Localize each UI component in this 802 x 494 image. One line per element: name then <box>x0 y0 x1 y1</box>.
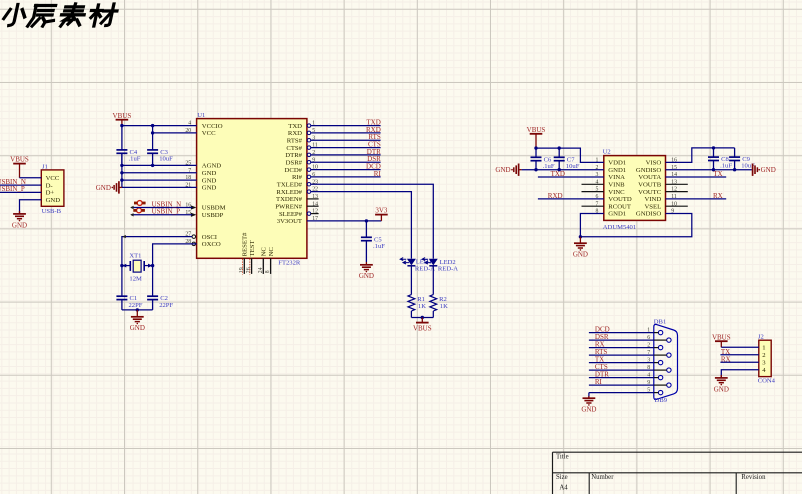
wire DSR from U1 <box>311 161 381 163</box>
U1 pin 24 NC <box>262 258 264 274</box>
wire TXLED to LED2 <box>311 184 434 258</box>
wire VBUS down to C3 and VCC <box>152 126 154 150</box>
IC U1 FT232R body <box>197 119 307 259</box>
wire USBDM <box>131 207 192 209</box>
junction GND rail pin7 <box>120 171 123 174</box>
junction VBUS C7 <box>558 146 561 149</box>
ground at crystal <box>136 310 138 317</box>
U1 pin 19 RESET# <box>243 258 245 274</box>
DB1 pin 3 <box>658 360 662 364</box>
svg-text:VIND: VIND <box>644 196 661 203</box>
svg-text:19: 19 <box>239 267 245 273</box>
svg-text:TX: TX <box>713 170 722 178</box>
wire DTR from U1 <box>311 154 381 156</box>
wire J1 VCC to VBUS <box>20 177 42 179</box>
svg-text:U2: U2 <box>603 148 611 155</box>
svg-text:RCOUT: RCOUT <box>608 203 631 210</box>
wire USBIN_N to J1 D- <box>0 184 41 186</box>
svg-text:RX: RX <box>713 192 723 200</box>
svg-text:22PF: 22PF <box>159 302 173 309</box>
svg-text:RXD: RXD <box>288 130 302 137</box>
wire LED resistors bottom <box>411 317 433 319</box>
wire crystal left leg down <box>121 266 123 297</box>
wire RI from U1 <box>311 176 381 178</box>
ground port at U1 GND rail <box>119 186 122 188</box>
svg-text:Revision: Revision <box>741 474 766 481</box>
wire OXCO to crystal <box>153 244 197 266</box>
svg-text:USB-B: USB-B <box>42 208 62 215</box>
junction C8 GNDISO <box>712 168 715 171</box>
svg-text:OSCI: OSCI <box>202 234 217 241</box>
power port VBUS at U1 <box>121 120 123 126</box>
svg-text:VINB: VINB <box>608 182 625 189</box>
svg-text:J2: J2 <box>758 334 764 341</box>
svg-text:10uF: 10uF <box>566 163 580 170</box>
power port VBUS at J1 <box>19 164 21 178</box>
wire U1 AGND <box>122 164 197 166</box>
wire VBUS to U2 VDD1 <box>536 148 604 162</box>
wire DB1 pin 3 <box>589 362 654 364</box>
resistor R2 <box>430 295 437 311</box>
junction C7 GND <box>558 168 561 171</box>
svg-text:VCC: VCC <box>202 130 216 137</box>
ERC marker at pin 19 <box>242 259 244 275</box>
svg-text:DSR#: DSR# <box>286 159 303 166</box>
wire DB1 pin 6 <box>589 339 654 341</box>
DB1 pin 8 <box>667 368 671 372</box>
svg-text:VINC: VINC <box>608 189 625 196</box>
svg-text:VDD1: VDD1 <box>608 160 626 167</box>
junction at VBUS C4 <box>120 124 123 127</box>
DB1 pin 5 <box>658 390 662 394</box>
svg-text:.1uF: .1uF <box>373 243 385 250</box>
svg-text:U1: U1 <box>197 112 205 119</box>
svg-text:VINA: VINA <box>608 174 625 181</box>
differential pair marker lower <box>137 208 142 213</box>
svg-text:VSEL: VSEL <box>644 203 661 210</box>
svg-text:VBUS: VBUS <box>113 112 132 120</box>
capacitor C1 <box>121 295 123 297</box>
wire DB1 pin 7 <box>589 354 654 356</box>
junction C9 GNDISO <box>733 168 736 171</box>
LED1 <box>407 259 416 266</box>
capacitor C7 <box>558 148 560 157</box>
wire VBUS to U1 VCCIO <box>122 125 197 127</box>
power port VBUS at J2 <box>720 341 722 347</box>
svg-text:VISO: VISO <box>646 160 662 167</box>
U2 pin 10 stub <box>666 205 688 207</box>
junction 3V3 C5 <box>365 219 368 222</box>
ground at J2 <box>720 375 722 378</box>
svg-text:GND: GND <box>202 170 217 177</box>
U1 pin 26 TEST <box>251 258 253 274</box>
svg-text:GND: GND <box>581 406 596 414</box>
junction VBUS C6 <box>534 146 537 149</box>
DB1 pin 9 <box>667 383 671 387</box>
U1 pin 12 stub <box>311 213 319 215</box>
U2 pin 5 stub <box>582 191 604 193</box>
svg-text:GND: GND <box>12 221 27 229</box>
wire crystal caps bottom <box>122 309 153 311</box>
ground at DB1 <box>588 396 590 398</box>
connector DB1 DB9 shell <box>654 324 678 399</box>
svg-text:OXCO: OXCO <box>202 241 221 248</box>
wire TXD to U2 VINA <box>538 176 604 178</box>
svg-text:D-: D- <box>46 182 53 189</box>
DB1 pin 4 <box>658 375 662 379</box>
logo text 小辰素材 <box>2 4 118 26</box>
svg-text:GNDISO: GNDISO <box>636 167 661 174</box>
svg-text:GND: GND <box>96 184 111 192</box>
wire OSCI to crystal <box>122 237 192 266</box>
wire U2 GND1 pin8 to GNDISO pin9 <box>580 214 691 237</box>
U2 pin 13 stub <box>666 183 688 185</box>
svg-text:USBDP: USBDP <box>202 212 224 219</box>
wire CTS from U1 <box>311 147 381 149</box>
wire TX from U2 VOUTA <box>666 176 727 178</box>
ground at J1 <box>19 211 21 214</box>
junction at VCC branch <box>151 131 154 134</box>
resistor R1 <box>408 295 415 311</box>
wire DB1 pin 8 <box>589 369 654 371</box>
U2 pin 12 stub <box>666 191 688 193</box>
svg-text:TXDEN#: TXDEN# <box>276 196 303 203</box>
wire RX to U2 VIND <box>666 198 727 200</box>
svg-text:RX: RX <box>721 355 731 363</box>
connector J2 body <box>759 340 771 376</box>
svg-text:RI: RI <box>595 378 603 386</box>
svg-text:VBUS: VBUS <box>413 325 432 333</box>
power port VBUS below LEDs <box>421 318 423 323</box>
junction VISO C8 <box>712 146 715 149</box>
wire J1 GND down <box>20 200 42 214</box>
power port 3V3 <box>380 215 382 221</box>
differential pair marker upper <box>137 201 142 206</box>
svg-text:GND1: GND1 <box>608 167 626 174</box>
svg-text:NC: NC <box>261 247 268 257</box>
svg-text:DB9: DB9 <box>655 397 668 404</box>
wire DB1 pin 1 <box>589 332 654 334</box>
DB1 pin 6 <box>667 338 671 342</box>
svg-text:DCD#: DCD# <box>285 167 303 174</box>
svg-text:TXD: TXD <box>288 123 302 130</box>
wire DCD from U1 <box>311 169 381 171</box>
svg-text:12M: 12M <box>129 275 142 282</box>
wire RXD from U1 <box>311 132 381 134</box>
svg-text:.1uF: .1uF <box>543 163 555 170</box>
wire RX to J2 pin3 <box>720 361 758 363</box>
wire RTS from U1 <box>311 139 381 141</box>
svg-text:TEST: TEST <box>249 240 256 256</box>
svg-text:PWREN#: PWREN# <box>275 203 302 210</box>
svg-text:GND: GND <box>46 197 61 204</box>
junction GND rail pin18 <box>120 178 123 181</box>
wire DB1 pin 5 <box>589 392 654 394</box>
junction C3 AGND <box>151 164 154 167</box>
svg-text:.1uF: .1uF <box>129 156 141 163</box>
svg-text:GND: GND <box>202 185 217 192</box>
junction crystal right <box>151 264 154 267</box>
wire USBDP <box>131 214 192 216</box>
svg-text:USBDM: USBDM <box>202 205 226 212</box>
U2 pin 7 stub <box>582 205 604 207</box>
svg-text:SLEEP#: SLEEP# <box>279 211 303 218</box>
wire DB1 pin 9 <box>589 384 654 386</box>
ground port at U2 right <box>751 169 754 171</box>
LED2 <box>429 259 438 266</box>
svg-text:TXLED#: TXLED# <box>277 181 303 188</box>
U1 pin 13 stub <box>307 198 319 200</box>
capacitor C5 <box>365 221 367 237</box>
svg-text:CTS#: CTS# <box>286 145 302 152</box>
svg-text:DTR#: DTR# <box>285 152 302 159</box>
IC U2 ADUM5401 body <box>604 156 666 221</box>
wire TXD from U1 <box>311 125 381 127</box>
svg-text:D+: D+ <box>46 190 55 197</box>
ground port at U2 left <box>519 169 522 171</box>
svg-text:RXLED#: RXLED# <box>276 189 302 196</box>
svg-text:USBIN_P: USBIN_P <box>0 185 25 193</box>
svg-text:VOUTD: VOUTD <box>608 196 632 203</box>
junction GND below U2 <box>579 235 582 238</box>
svg-text:2: 2 <box>762 352 765 359</box>
svg-text:10uF: 10uF <box>159 156 173 163</box>
svg-text:GND: GND <box>359 272 374 280</box>
svg-text:GND: GND <box>130 324 145 332</box>
svg-text:1: 1 <box>762 345 765 352</box>
capacitor C2 <box>152 295 154 297</box>
svg-text:TXD: TXD <box>551 170 565 178</box>
svg-text:AGND: AGND <box>202 163 221 170</box>
wire crystal right leg down <box>152 266 154 297</box>
U1 pin 8 NC <box>270 258 272 274</box>
svg-text:GND: GND <box>495 166 510 174</box>
svg-text:R2: R2 <box>439 296 447 303</box>
svg-text:GND: GND <box>573 251 588 259</box>
capacitor C8 <box>713 148 715 157</box>
capacitor C6 <box>535 148 537 157</box>
svg-text:GNDISO: GNDISO <box>636 211 661 218</box>
svg-text:VBUS: VBUS <box>527 126 546 134</box>
wire GND rail vertical <box>121 153 123 187</box>
svg-text:VCC: VCC <box>46 175 60 182</box>
svg-text:J1: J1 <box>42 163 48 170</box>
wire U1 GND pin7 <box>122 172 197 174</box>
svg-text:GND: GND <box>202 177 217 184</box>
svg-text:Size: Size <box>556 474 568 481</box>
svg-text:Number: Number <box>591 474 614 481</box>
svg-text:XT1: XT1 <box>129 253 141 260</box>
svg-text:RXD: RXD <box>548 192 563 200</box>
svg-text:GND1: GND1 <box>608 211 626 218</box>
wire DB1 pin5 to ground <box>588 393 590 399</box>
power port VBUS at U2 <box>535 134 537 148</box>
svg-text:VCCIO: VCCIO <box>202 123 223 130</box>
svg-text:Title: Title <box>556 453 569 460</box>
wire DB1 pin 2 <box>589 347 654 349</box>
svg-text:VOUTB: VOUTB <box>638 182 662 189</box>
svg-text:8: 8 <box>265 270 271 273</box>
wire DB1 pin 4 <box>589 377 654 379</box>
svg-text:VBUS: VBUS <box>10 156 29 164</box>
svg-text:.1uF: .1uF <box>720 163 732 170</box>
svg-text:3V3: 3V3 <box>375 207 388 215</box>
junction resistors bottom <box>421 316 424 319</box>
wire USBIN_P to J1 D+ <box>0 191 41 193</box>
wire U1 GND pin21 <box>122 186 197 188</box>
svg-text:A4: A4 <box>559 485 568 492</box>
svg-text:RTS#: RTS# <box>287 137 303 144</box>
wire U2 GND1 <box>522 169 604 171</box>
DB1 pin 7 <box>667 353 671 357</box>
U1 pin 14 stub <box>307 205 319 207</box>
svg-text:R1: R1 <box>417 296 425 303</box>
svg-text:26: 26 <box>246 267 252 273</box>
wire TX to J2 pin2 <box>720 354 758 356</box>
svg-text:VBUS: VBUS <box>712 333 731 341</box>
title block lines <box>553 452 802 494</box>
wire J2 pin4 to ground <box>721 370 759 378</box>
svg-text:NC: NC <box>268 247 275 257</box>
svg-text:ADUM5401: ADUM5401 <box>603 224 636 231</box>
capacitor C9 <box>734 148 736 157</box>
svg-text:VOUTC: VOUTC <box>638 189 662 196</box>
DB1 pin 2 <box>658 345 662 349</box>
svg-text:CON4: CON4 <box>758 378 776 385</box>
junction crystal left <box>120 264 123 267</box>
wire 3V3OUT <box>307 220 382 222</box>
capacitor C3 <box>152 149 154 151</box>
wire VBUS to J2 pin1 <box>721 346 759 348</box>
junction caps bottom <box>136 308 139 311</box>
junction VBUS C3 branch <box>151 124 154 127</box>
svg-text:FT232R: FT232R <box>278 259 301 266</box>
svg-text:22PF: 22PF <box>129 302 143 309</box>
capacitor C4 <box>121 126 123 150</box>
junction GND rail AGND <box>120 164 123 167</box>
wire RXD from U2 VOUTD <box>538 198 604 200</box>
ground at C5 <box>365 262 367 265</box>
ground below U2 <box>579 237 581 243</box>
wire U1 VCC <box>153 132 197 134</box>
svg-text:24: 24 <box>258 267 264 273</box>
connector J1 body <box>41 170 64 206</box>
svg-text:3V3OUT: 3V3OUT <box>277 218 302 225</box>
wire RXLED to LED1 <box>311 192 412 259</box>
junction C6 GND <box>534 168 537 171</box>
svg-text:USBIN_P: USBIN_P <box>152 208 181 216</box>
svg-text:GND: GND <box>761 166 776 174</box>
ERC marker at pin 26 <box>249 259 251 275</box>
svg-text:RI: RI <box>374 170 382 178</box>
svg-text:VOUTA: VOUTA <box>638 174 661 181</box>
svg-text:1K: 1K <box>440 303 448 310</box>
svg-text:RI#: RI# <box>292 174 303 181</box>
wire U2 GNDISO pin15 <box>666 169 752 171</box>
svg-text:RESET#: RESET# <box>242 232 249 256</box>
svg-text:GND: GND <box>714 385 729 393</box>
DB1 pin 1 <box>658 330 662 334</box>
wire U2 VISO top <box>666 148 735 163</box>
svg-text:1K: 1K <box>418 303 426 310</box>
wire U1 GND pin18 <box>122 179 197 181</box>
U2 pin 4 stub <box>582 183 604 185</box>
svg-text:RED-A: RED-A <box>438 265 458 272</box>
